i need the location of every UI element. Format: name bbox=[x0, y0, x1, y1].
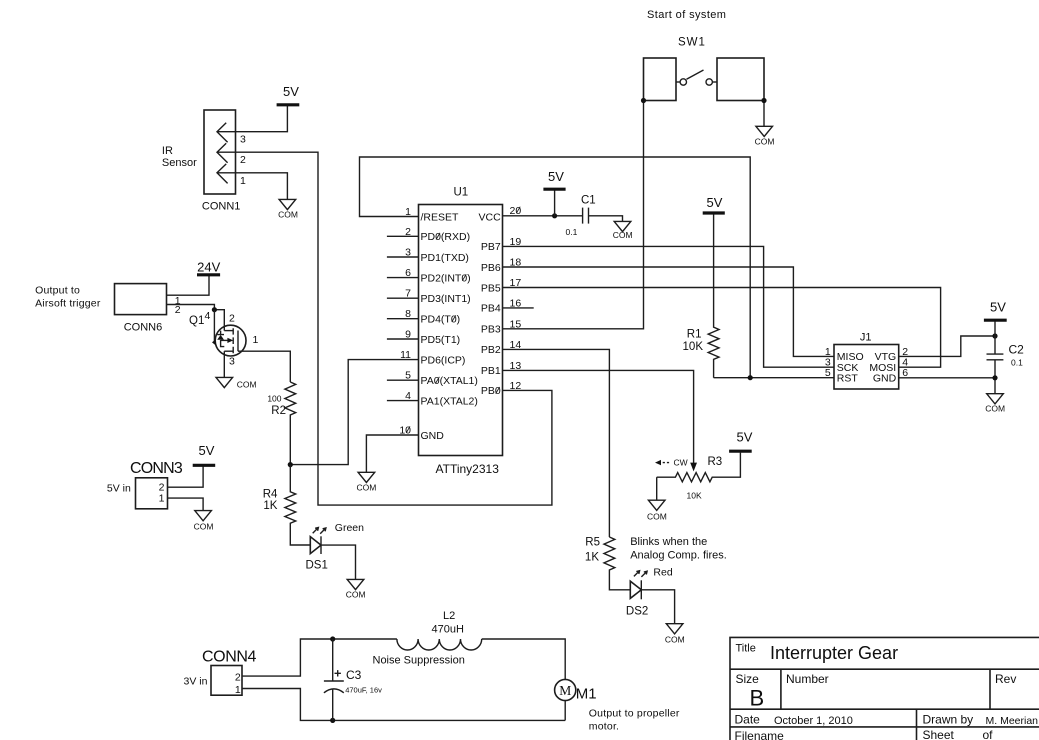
CONN3 pin number 1 bbox=[159, 492, 165, 504]
DS1 color label Green bbox=[335, 522, 364, 534]
svg-text:COM: COM bbox=[755, 137, 775, 147]
junction SW1 right bbox=[761, 98, 766, 103]
CONN1 pin number 2 bbox=[240, 154, 246, 166]
power 5V above VCC bbox=[543, 169, 565, 189]
CONN4 pin number 1 bbox=[235, 684, 241, 696]
svg-text:1: 1 bbox=[159, 492, 165, 504]
R4 label bbox=[263, 488, 278, 500]
Q1 pin number 2 bbox=[229, 313, 235, 325]
title block: B bbox=[750, 686, 765, 711]
svg-text:15: 15 bbox=[510, 318, 522, 330]
svg-text:Airsoft trigger: Airsoft trigger bbox=[35, 298, 101, 310]
svg-text:Output to: Output to bbox=[35, 284, 80, 296]
C1 value 0.1 bbox=[566, 227, 578, 237]
wire M1 bottom bbox=[564, 701, 566, 721]
wire 5V to VCC bbox=[554, 190, 556, 216]
svg-text:CW: CW bbox=[674, 457, 688, 467]
ground COM below Q1 bbox=[216, 377, 257, 389]
svg-text:PB4: PB4 bbox=[481, 303, 501, 315]
svg-text:Number: Number bbox=[786, 672, 829, 686]
label: Start of system bbox=[647, 9, 726, 21]
R3 wiper arrow bbox=[690, 463, 697, 472]
svg-text:1K: 1K bbox=[585, 551, 599, 563]
label: Output to Airsoft trigger bbox=[35, 284, 101, 309]
U1 part name ATTiny2313 bbox=[436, 462, 500, 476]
svg-text:C3: C3 bbox=[346, 668, 362, 682]
svg-text:PB0: PB0 bbox=[481, 385, 501, 397]
svg-text:R3: R3 bbox=[708, 456, 723, 468]
wire CONN1 pin1 to ground bbox=[217, 173, 287, 200]
title block: Sheet bbox=[923, 728, 955, 740]
title block: Date bbox=[735, 712, 761, 726]
capacitor C2 bbox=[987, 322, 1004, 378]
Q1 pin number 1 bbox=[253, 334, 259, 346]
svg-text:6: 6 bbox=[405, 267, 411, 279]
wire J1 VTG to 5V/C2 bbox=[899, 336, 995, 356]
svg-text:CONN4: CONN4 bbox=[202, 648, 257, 665]
svg-text:PA0(XTAL1): PA0(XTAL1) bbox=[421, 375, 478, 387]
svg-text:CONN6: CONN6 bbox=[124, 322, 163, 334]
ground COM below SW1 bbox=[755, 126, 775, 146]
transistor Q1 (N-channel MOSFET) bbox=[212, 310, 246, 356]
R3 CW arrow bbox=[655, 457, 688, 467]
L2 value 470uH bbox=[432, 623, 464, 635]
wire CONN6 pin2 to Q1 drain bbox=[167, 305, 225, 331]
svg-text:M. Meerian: M. Meerian bbox=[986, 715, 1039, 727]
svg-text:of: of bbox=[983, 728, 994, 740]
label: Output to propeller motor. bbox=[589, 708, 680, 733]
svg-text:DS2: DS2 bbox=[626, 606, 648, 618]
inductor L2 bbox=[397, 639, 482, 650]
R4 value 1K bbox=[263, 500, 277, 512]
svg-text:PB5: PB5 bbox=[481, 282, 501, 294]
svg-text:COM: COM bbox=[647, 511, 667, 521]
svg-text:1K: 1K bbox=[263, 500, 277, 512]
C2 value 0.1 bbox=[1011, 357, 1023, 367]
wire R2/R4 junction to U1 PD6(ICP) pin 11 bbox=[290, 360, 418, 465]
svg-text:PB3: PB3 bbox=[481, 324, 501, 336]
U1 pin numbers right bbox=[510, 205, 522, 392]
U1 pin numbers left bbox=[399, 206, 411, 437]
power 5V above CONN1 bbox=[277, 84, 300, 105]
junction CONN6 pin2 / Q1 tab bbox=[212, 307, 217, 312]
junction RST / RESET net bbox=[748, 375, 753, 380]
svg-text:12: 12 bbox=[510, 380, 522, 392]
power 5V above R3 bbox=[729, 430, 753, 452]
junction VCC/5V bbox=[552, 213, 557, 218]
svg-text:5: 5 bbox=[405, 370, 411, 382]
ground COM below R3 bbox=[647, 500, 667, 521]
CONN3 pin number 2 bbox=[159, 482, 165, 494]
svg-text:16: 16 bbox=[510, 297, 522, 309]
R5 label bbox=[585, 536, 600, 548]
M1 label bbox=[576, 685, 597, 702]
wire VCC pin 20 to C1 bbox=[502, 215, 582, 217]
svg-text:J1: J1 bbox=[860, 332, 872, 344]
resistor R1 bbox=[708, 215, 719, 378]
junction GND/C2 bbox=[992, 375, 997, 380]
wire U1 GND pin 10 to ground bbox=[366, 435, 418, 472]
L2 label bbox=[443, 610, 455, 622]
svg-text:3: 3 bbox=[240, 134, 246, 146]
svg-text:SW1: SW1 bbox=[678, 37, 706, 49]
label: Blinks when the Analog Comp. fires. bbox=[630, 536, 727, 562]
title block: Drawn by bbox=[923, 712, 974, 726]
resistor R5 bbox=[604, 537, 630, 590]
svg-text:R4: R4 bbox=[263, 488, 278, 500]
wire CONN1 pin2 to U1 PB0 (pin 12) bbox=[217, 152, 552, 505]
R1 label bbox=[687, 328, 702, 340]
CONN6 pin number 1 bbox=[175, 295, 181, 307]
connector CONN3 box bbox=[136, 478, 168, 509]
svg-text:2: 2 bbox=[175, 304, 181, 316]
C3 label bbox=[346, 668, 362, 682]
title block: of bbox=[983, 728, 994, 740]
connector CONN1 (IR sensor) box bbox=[204, 110, 236, 194]
svg-text:470uF, 16v: 470uF, 16v bbox=[345, 685, 382, 694]
svg-text:PB2: PB2 bbox=[481, 344, 501, 356]
label: Noise Suppression bbox=[373, 654, 465, 666]
svg-text:Start of system: Start of system bbox=[647, 9, 726, 21]
resistor R2 bbox=[285, 382, 296, 465]
svg-text:motor.: motor. bbox=[589, 721, 619, 733]
svg-text:Sheet: Sheet bbox=[923, 728, 955, 740]
title block: Rev bbox=[995, 672, 1016, 686]
svg-text:5V in: 5V in bbox=[107, 482, 131, 494]
svg-text:3: 3 bbox=[229, 356, 235, 368]
svg-text:1: 1 bbox=[405, 206, 411, 218]
svg-text:470uH: 470uH bbox=[432, 623, 464, 635]
svg-text:PB1: PB1 bbox=[481, 365, 501, 377]
svg-text:0.1: 0.1 bbox=[566, 227, 578, 237]
svg-text:PA1(XTAL2): PA1(XTAL2) bbox=[421, 395, 478, 407]
svg-text:C2: C2 bbox=[1009, 342, 1025, 356]
svg-text:R5: R5 bbox=[585, 536, 600, 548]
wire DS2 cathode to ground bbox=[641, 590, 674, 624]
resistor R4 bbox=[285, 465, 310, 545]
svg-text:IR: IR bbox=[162, 145, 173, 157]
DS2 label bbox=[626, 606, 648, 618]
svg-text:PD5(T1): PD5(T1) bbox=[421, 334, 461, 346]
svg-text:/RESET: /RESET bbox=[421, 211, 460, 223]
svg-text:2: 2 bbox=[235, 672, 241, 684]
C2 label bbox=[1009, 342, 1025, 356]
svg-text:1: 1 bbox=[235, 684, 241, 696]
J1 pin numbers 1,3,5 bbox=[825, 346, 831, 379]
svg-text:4: 4 bbox=[205, 310, 211, 322]
svg-text:5V: 5V bbox=[283, 84, 299, 99]
CONN6 pin number 2 bbox=[175, 304, 181, 316]
capacitor C3 (polarized) bbox=[324, 639, 344, 720]
power 5V above C2 bbox=[984, 300, 1007, 321]
C3 plus sign bbox=[335, 670, 341, 676]
svg-text:1: 1 bbox=[240, 175, 246, 187]
R2 label bbox=[271, 405, 286, 417]
svg-text:Output to propeller: Output to propeller bbox=[589, 708, 680, 720]
U1 slashed zeros (vector font style) bbox=[406, 207, 520, 433]
R1 value 10K bbox=[683, 341, 704, 353]
junction R2/R4/PD6 bbox=[288, 462, 293, 467]
svg-text:100: 100 bbox=[267, 393, 281, 403]
C3 value 470uF, 16v bbox=[345, 685, 382, 694]
ground COM below C2 bbox=[985, 394, 1005, 414]
svg-text:0.1: 0.1 bbox=[1011, 357, 1023, 367]
power 24V bbox=[197, 259, 221, 275]
DS2 color label Red bbox=[653, 567, 672, 579]
J1 label bbox=[860, 332, 872, 344]
title block: M. Meerian bbox=[986, 715, 1039, 727]
svg-text:24V: 24V bbox=[197, 259, 220, 274]
svg-text:5V: 5V bbox=[737, 430, 753, 445]
svg-text:20: 20 bbox=[510, 205, 522, 217]
svg-text:PB7: PB7 bbox=[481, 241, 501, 253]
switch SW1 right contact box bbox=[717, 58, 764, 101]
svg-text:COM: COM bbox=[237, 380, 257, 390]
wire R3 left end to ground bbox=[656, 477, 658, 500]
svg-text:COM: COM bbox=[278, 210, 298, 220]
svg-text:7: 7 bbox=[405, 288, 411, 300]
LED DS1 bbox=[310, 528, 326, 555]
svg-text:PD2(INT0): PD2(INT0) bbox=[421, 272, 471, 284]
svg-text:Analog Comp. fires.: Analog Comp. fires. bbox=[630, 550, 727, 562]
U1 left pin stubs (pins 2,3,6,7,8,9,5,4) bbox=[387, 236, 419, 400]
wire C1 to ground bbox=[589, 216, 623, 222]
svg-text:Q1: Q1 bbox=[189, 315, 204, 327]
wire PB7 (pin 19) to J1 SCK bbox=[502, 246, 834, 367]
svg-text:COM: COM bbox=[356, 482, 376, 492]
svg-text:3V in: 3V in bbox=[184, 675, 208, 687]
svg-text:CONN1: CONN1 bbox=[202, 201, 241, 213]
svg-text:October 1, 2010: October 1, 2010 bbox=[774, 715, 853, 727]
svg-text:M1: M1 bbox=[576, 685, 597, 702]
svg-text:Sensor: Sensor bbox=[162, 157, 197, 169]
svg-text:PD6(ICP): PD6(ICP) bbox=[421, 354, 466, 366]
svg-text:ATTiny2313: ATTiny2313 bbox=[436, 462, 500, 476]
junction C3 bottom bbox=[330, 718, 335, 723]
DS1 label bbox=[306, 560, 328, 572]
svg-text:COM: COM bbox=[194, 521, 214, 531]
svg-text:COM: COM bbox=[985, 404, 1005, 414]
svg-text:Red: Red bbox=[653, 567, 672, 579]
wire CONN3 pin2 to 5V bbox=[168, 466, 204, 487]
switch SW1 contacts and lever bbox=[676, 70, 717, 85]
power 5V above R1 bbox=[703, 195, 725, 213]
U1 pin 16 stub (PB4) bbox=[502, 307, 533, 309]
wire PB6 (pin 18) to J1 MISO bbox=[502, 267, 834, 356]
svg-text:5: 5 bbox=[825, 367, 831, 379]
title block: Title bbox=[736, 642, 756, 654]
connector CONN6 label bbox=[124, 322, 163, 334]
wire SW1 left to PB3 (pin 15) bbox=[502, 101, 643, 329]
svg-text:Drawn by: Drawn by bbox=[923, 712, 974, 726]
svg-text:PD1(TXD): PD1(TXD) bbox=[421, 252, 469, 264]
wire PB1 (pin 13) to R3 wiper bbox=[502, 370, 693, 463]
svg-text:Rev: Rev bbox=[995, 672, 1016, 686]
CONN4 pin number 2 bbox=[235, 672, 241, 684]
ground COM below U1 bbox=[356, 472, 376, 492]
wire PB5 (pin 17) to J1 MOSI bbox=[502, 288, 940, 368]
svg-text:Blinks when the: Blinks when the bbox=[630, 536, 707, 548]
svg-text:Size: Size bbox=[736, 672, 760, 686]
R3 value 10K bbox=[687, 491, 702, 501]
svg-text:DS1: DS1 bbox=[306, 560, 328, 572]
ground COM below DS2 bbox=[665, 624, 685, 645]
title block: October 1, 2010 bbox=[774, 715, 853, 727]
J1 left pin names bbox=[837, 351, 864, 384]
svg-text:5V: 5V bbox=[707, 195, 723, 210]
Q1 pin number 4 bbox=[205, 310, 211, 322]
J1 right pin names bbox=[869, 351, 896, 384]
svg-text:2: 2 bbox=[405, 226, 411, 238]
title block frame bbox=[730, 637, 1039, 740]
title block: Size bbox=[736, 672, 760, 686]
switch SW1 label bbox=[678, 37, 706, 49]
ground COM right of C1 bbox=[613, 221, 633, 240]
svg-text:11: 11 bbox=[400, 349, 411, 361]
svg-text:Green: Green bbox=[335, 522, 364, 534]
CONN1 pin number 3 bbox=[240, 134, 246, 146]
U1 label bbox=[454, 186, 469, 198]
Q1 pin number 3 bbox=[229, 356, 235, 368]
wire R1 to J1 RST bbox=[714, 377, 834, 379]
power 5V above CONN3 bbox=[193, 443, 216, 465]
LED DS2 bbox=[630, 571, 647, 600]
svg-text:10K: 10K bbox=[683, 341, 704, 353]
wire PB2 (pin 14) to R5 bbox=[502, 349, 609, 537]
svg-text:2: 2 bbox=[240, 154, 246, 166]
svg-text:9: 9 bbox=[405, 329, 411, 341]
wire J1 GND pin6 to ground bbox=[899, 378, 995, 394]
connector CONN3 label bbox=[130, 460, 183, 477]
C1 label bbox=[581, 194, 596, 206]
label: 3V in bbox=[184, 675, 208, 687]
switch SW1 left contact box bbox=[644, 58, 677, 101]
svg-text:5V: 5V bbox=[548, 169, 564, 184]
label: 5V in bbox=[107, 482, 131, 494]
svg-text:5V: 5V bbox=[199, 443, 215, 458]
wire /RESET net: U1 pin1 up over to J1 RST column bbox=[360, 157, 751, 378]
svg-text:Interrupter Gear: Interrupter Gear bbox=[770, 643, 898, 663]
svg-text:Filename: Filename bbox=[735, 729, 785, 740]
svg-text:M: M bbox=[559, 683, 571, 698]
U1 left pin names bbox=[421, 211, 478, 441]
wire Q1 source to ground bbox=[223, 351, 225, 377]
wire CONN1 pin3 to 5V bbox=[217, 106, 287, 132]
svg-text:COM: COM bbox=[665, 635, 685, 645]
R3 label bbox=[708, 456, 723, 468]
R2 value 100 bbox=[267, 393, 281, 403]
svg-text:8: 8 bbox=[405, 308, 411, 320]
svg-text:L2: L2 bbox=[443, 610, 455, 622]
svg-text:1: 1 bbox=[253, 334, 259, 346]
svg-text:R1: R1 bbox=[687, 328, 702, 340]
CONN1 pin arrows bbox=[217, 123, 228, 184]
title block: Number bbox=[786, 672, 829, 686]
wire CONN3 pin1 to ground bbox=[168, 498, 204, 511]
wire SW1 right to ground bbox=[763, 101, 765, 127]
svg-text:B: B bbox=[750, 686, 765, 711]
junction SW1 left bbox=[641, 98, 646, 103]
svg-text:C1: C1 bbox=[581, 194, 596, 206]
wire Q1 gate to R2 bbox=[238, 351, 290, 382]
title block: Filename bbox=[735, 729, 785, 740]
svg-text:PD0(RXD): PD0(RXD) bbox=[421, 231, 471, 243]
svg-text:GND: GND bbox=[421, 430, 445, 442]
ground COM below CONN1 bbox=[278, 199, 298, 219]
svg-text:R2: R2 bbox=[271, 405, 286, 417]
wire CONN4 pin2 to motor top rail bbox=[242, 639, 397, 676]
svg-text:5V: 5V bbox=[990, 300, 1006, 315]
IC U1 ATTiny2313 box bbox=[419, 205, 503, 456]
connector CONN4 label bbox=[202, 648, 257, 665]
J1 pin numbers 2,4,6 bbox=[902, 346, 908, 379]
junction C3 top bbox=[330, 636, 335, 641]
ground COM below DS1 bbox=[346, 579, 366, 599]
connector J1 box bbox=[834, 345, 899, 390]
wire CONN6 pin1 to 24V bbox=[167, 276, 210, 295]
svg-text:3: 3 bbox=[405, 247, 411, 259]
potentiometer R3 body bbox=[657, 452, 741, 482]
transistor Q1 label bbox=[189, 315, 204, 327]
R5 value 1K bbox=[585, 551, 599, 563]
capacitor C1 bbox=[583, 208, 589, 224]
svg-text:Date: Date bbox=[735, 712, 761, 726]
svg-text:PB6: PB6 bbox=[481, 262, 501, 274]
wire L2 to motor M1 bbox=[482, 639, 566, 679]
motor M1 bbox=[555, 679, 576, 700]
U1 right pin names bbox=[479, 211, 502, 397]
svg-text:2: 2 bbox=[229, 313, 235, 325]
svg-text:PD3(INT1): PD3(INT1) bbox=[421, 293, 471, 305]
wire DS1 cathode to ground bbox=[321, 545, 356, 579]
label: IR Sensor bbox=[162, 145, 197, 169]
svg-text:Title: Title bbox=[736, 642, 756, 654]
svg-text:U1: U1 bbox=[454, 186, 469, 198]
title block: Interrupter Gear bbox=[770, 643, 898, 663]
svg-text:GND: GND bbox=[873, 372, 897, 384]
junction VTG/5V/C2 bbox=[992, 333, 997, 338]
svg-text:Noise Suppression: Noise Suppression bbox=[373, 654, 465, 666]
svg-text:COM: COM bbox=[613, 230, 633, 240]
wire CONN4 pin1 to motor bottom rail bbox=[242, 689, 565, 721]
svg-text:VCC: VCC bbox=[479, 211, 502, 223]
svg-text:PD4(T0): PD4(T0) bbox=[421, 314, 461, 326]
CONN1 pin number 1 bbox=[240, 175, 246, 187]
svg-text:CONN3: CONN3 bbox=[130, 460, 183, 477]
svg-text:RST: RST bbox=[837, 372, 859, 384]
connector CONN6 box bbox=[115, 284, 167, 315]
ground COM below CONN3 bbox=[194, 511, 214, 532]
connector CONN4 box bbox=[211, 666, 242, 696]
svg-text:COM: COM bbox=[346, 589, 366, 599]
connector CONN1 label bbox=[202, 201, 241, 213]
svg-text:10K: 10K bbox=[687, 491, 702, 501]
svg-text:4: 4 bbox=[405, 390, 411, 402]
